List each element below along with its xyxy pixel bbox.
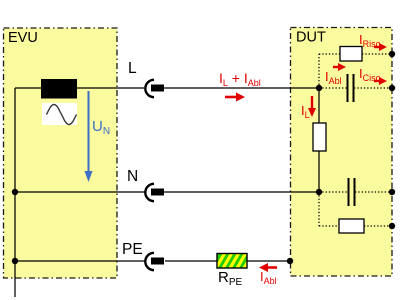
capacitor Ciso [348,74,354,102]
DUT dotted wire to lower resistor [319,225,339,227]
wire left vertical [14,88,16,297]
node right lower [389,223,395,229]
wire N right [163,191,319,193]
svg-text:EVU: EVU [8,30,38,46]
svg-text:PE: PE [122,241,143,258]
arrow I_L + I_Abl [225,93,245,102]
source transformer black block [41,79,77,99]
node right Riso [389,51,395,57]
arrow I_Riso [374,43,387,51]
EVU box [4,28,118,278]
arrow I_Abl PE (left) [259,263,277,272]
svg-text:IL + IAbl: IL + IAbl [219,70,261,88]
svg-text:DUT: DUT [296,30,326,46]
U_N voltage arrow [85,91,111,182]
DUT solid wire L node down [318,88,320,123]
node left N [12,189,18,195]
wire PE middle [165,260,217,262]
wire PE left [15,260,146,262]
node PE at DUT [287,258,293,264]
node L junction [316,85,322,91]
DUT dotted wire N to cap [319,191,348,193]
arrow I_Ciso [374,77,387,85]
label I_L [301,103,310,120]
AC source sine [42,103,77,125]
label L [128,60,137,77]
label N [127,168,138,185]
R_PE resistor [215,251,254,270]
resistor R load vertical [313,123,326,151]
wire PE right [247,260,290,262]
DUT dotted wire lower resistor to right [364,225,392,227]
connector N [145,184,164,201]
node right N [389,189,395,195]
resistor Riso [340,47,362,62]
node left PE [12,258,18,264]
wire L left [15,87,144,89]
capacitor N branch [349,178,355,206]
resistor lower right [339,219,364,233]
svg-text:L: L [128,60,137,77]
connector PE [145,253,164,270]
DUT dotted vertical up from L node [318,54,320,88]
svg-text:RPE: RPE [218,269,243,288]
label PE [122,241,143,258]
DUT dotted wire cap to right [355,191,392,193]
arrow I_L down [308,96,316,117]
label I_L + I_Abl [219,70,261,88]
DUT dotted vertical N down [318,192,320,226]
DUT dotted wire Riso to right [362,53,392,55]
label I_Abl DUT [325,69,342,86]
label I_Abl PE [260,269,277,286]
node right Ciso [389,85,395,91]
svg-text:N: N [127,168,138,185]
DUT dotted wire to Riso [319,53,340,55]
arrow I_Abl DUT [333,63,346,71]
svg-text:IAbl: IAbl [260,269,277,286]
label I_Ciso [359,66,381,83]
DUT dotted wire L node to Ciso [319,87,347,89]
DUT solid wire resistor to N [318,151,320,192]
node N junction [316,189,322,195]
DUT dotted wire Ciso to right [354,87,392,89]
wire N left [15,191,146,193]
connector L [145,80,164,97]
label R_PE [218,269,243,288]
label I_Riso [359,32,381,49]
DUT box [291,28,393,277]
wire L right [163,87,319,89]
